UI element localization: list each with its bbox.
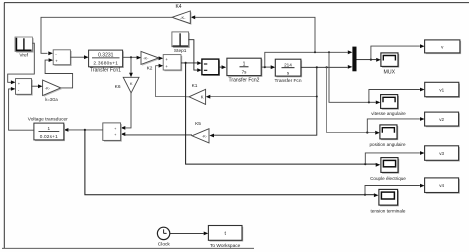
svg-text:Transfer Fcn: Transfer Fcn xyxy=(274,78,301,84)
wire mux output to scope and v xyxy=(357,58,381,62)
gain K6 xyxy=(115,77,139,93)
gain K4 xyxy=(172,4,192,25)
sum S4 xyxy=(16,79,33,96)
wire position dropper and row xyxy=(327,67,380,134)
wire branch to K1 xyxy=(206,95,317,99)
sum S3 (voltage summer) xyxy=(103,123,122,142)
svg-text:K4: K4 xyxy=(175,4,181,10)
wire K5 output to summer S3 xyxy=(121,132,192,136)
svg-text:214: 214 xyxy=(284,62,292,67)
wire TF2 output to Transfer Fcn xyxy=(261,65,275,69)
svg-text:tension terminale: tension terminale xyxy=(371,208,406,213)
wire riser to v2 xyxy=(367,117,424,132)
wire link couple net to sum S2 second input xyxy=(156,64,186,97)
to workspace v3 xyxy=(425,146,460,162)
svg-text:Step1: Step1 xyxy=(174,48,187,54)
wire S4 output to amplifier gain xyxy=(32,84,43,88)
node junction tension tap xyxy=(84,129,86,131)
frame border top xyxy=(4,2,469,4)
wire riser to v3 xyxy=(365,151,424,164)
svg-text:K2: K2 xyxy=(147,65,153,71)
svg-text:Clock: Clock xyxy=(158,242,171,248)
svg-text:K1: K1 xyxy=(192,83,198,89)
wire riser to v xyxy=(371,44,425,59)
svg-text:2.3680s+1: 2.3680s+1 xyxy=(93,60,118,66)
transfer Fcn (214/s) xyxy=(274,59,302,84)
svg-text:v1: v1 xyxy=(439,87,444,92)
wire riser to v4 xyxy=(365,184,425,195)
svg-text:k=3Ga: k=3Ga xyxy=(45,97,58,102)
source Vref xyxy=(15,37,34,59)
wire K6 output down to summer S3 xyxy=(121,93,131,130)
wire S3 output to voltage transducer xyxy=(64,128,103,132)
wire S2 output to torque block xyxy=(181,61,202,65)
frame border bottom xyxy=(2,247,254,249)
wire riser to v1 xyxy=(369,88,425,103)
node junction on TF1-K2 wire xyxy=(130,56,132,58)
wire tension terminale long feedback xyxy=(85,130,379,197)
svg-text:-K-: -K- xyxy=(143,56,149,61)
wire Step1 output down to torque block xyxy=(189,40,202,72)
svg-text:Transfer Fcn1: Transfer Fcn1 xyxy=(90,67,121,73)
svg-text:-K-: -K- xyxy=(202,135,208,139)
to workspace v2 xyxy=(425,112,460,127)
node junction K1-K5 feeder xyxy=(316,66,318,68)
to workspace t xyxy=(208,226,243,250)
to workspace v4 xyxy=(425,178,460,194)
wire K4 feedback top right riser xyxy=(191,15,315,52)
svg-text:K: K xyxy=(130,81,133,86)
node junction vitesse tap xyxy=(328,51,330,53)
svg-text:vitesse angulaire: vitesse angulaire xyxy=(371,111,406,116)
node junction couple row xyxy=(364,163,366,165)
clock xyxy=(157,227,170,248)
node junction on feeder at K1 branch xyxy=(316,96,318,98)
wire K2 output to sum S2 xyxy=(159,56,164,60)
scope tension terminale xyxy=(371,189,406,213)
svg-text:K5: K5 xyxy=(195,121,201,127)
mux bar xyxy=(352,47,356,72)
gain amplifier kGa xyxy=(43,80,62,102)
svg-text:position angulaire: position angulaire xyxy=(369,142,405,147)
scope MUX xyxy=(381,53,399,76)
svg-text:1: 1 xyxy=(48,126,51,131)
wire Vref output down to sum S4 xyxy=(8,43,35,84)
to workspace v1 xyxy=(425,82,460,98)
node junction mux row xyxy=(370,59,372,61)
wire feeder to K1 and K5 xyxy=(209,67,316,137)
svg-text:Vref: Vref xyxy=(19,53,28,59)
scope vitesse angulaire xyxy=(371,95,406,116)
wire K4 output to sum S1 xyxy=(41,17,172,55)
svg-text:Couple électrique: Couple électrique xyxy=(370,176,406,181)
sum block D1 (two-input box) xyxy=(202,59,220,76)
svg-text:K6: K6 xyxy=(115,84,121,90)
node junction position feeder xyxy=(326,66,328,68)
frame border left xyxy=(3,3,5,249)
svg-text:To Workspace: To Workspace xyxy=(210,243,241,249)
gain K1 xyxy=(189,83,206,105)
svg-text:MUX: MUX xyxy=(384,70,396,76)
node junction vitesse row xyxy=(368,101,370,103)
wire amplifier output up to sum S1 xyxy=(45,58,73,88)
wire vitesse dropper and row xyxy=(329,52,380,104)
node junction K4 tap xyxy=(314,51,316,53)
svg-text:K: K xyxy=(201,95,204,100)
to workspace v xyxy=(425,40,461,54)
node junction TF2 out riser xyxy=(264,66,266,68)
scope Couple electrique xyxy=(370,158,406,181)
sum S1 xyxy=(53,50,71,66)
wire clock to workspace t xyxy=(170,232,209,236)
node junction tension row xyxy=(364,194,366,196)
svg-text:v2: v2 xyxy=(439,117,444,122)
svg-text:7s: 7s xyxy=(242,70,248,75)
node junction couple tap xyxy=(185,62,187,64)
transfer Fcn1 xyxy=(89,50,124,73)
gain K5 xyxy=(192,121,209,143)
wire D1 output to Transfer Fcn2 xyxy=(219,65,226,69)
wire S1 output to Transfer Fcn1 xyxy=(70,55,88,59)
wire TF output to mux lower input xyxy=(301,65,353,69)
scope position angulaire xyxy=(369,125,405,147)
wire TF2 riser and mux top feed xyxy=(265,50,353,67)
wire K6 branch down xyxy=(129,57,133,77)
gain K2 xyxy=(141,51,160,71)
wire couple electrique long feedback xyxy=(186,63,381,167)
voltage transducer block xyxy=(28,117,68,141)
node junction position row xyxy=(366,131,368,133)
transfer Fcn2 xyxy=(227,58,263,83)
svg-text:0.02s+1: 0.02s+1 xyxy=(40,134,58,139)
svg-text:-K-: -K- xyxy=(180,15,186,20)
svg-text:Transfer Fcn2: Transfer Fcn2 xyxy=(229,78,260,84)
svg-text:v3: v3 xyxy=(439,151,444,156)
svg-text:+: + xyxy=(114,127,116,131)
svg-text:v4: v4 xyxy=(439,183,444,188)
step source Step1 xyxy=(172,32,190,54)
svg-text:Voltage transducer: Voltage transducer xyxy=(28,117,68,123)
wire transducer output up to sum S4 xyxy=(9,87,34,130)
svg-text:-K-: -K- xyxy=(45,86,51,91)
sum S2 xyxy=(163,55,182,72)
wire TF1 output to gain K2 xyxy=(123,56,142,60)
wire K1 output stub to couple net xyxy=(186,96,189,98)
svg-text:+: + xyxy=(114,133,116,137)
